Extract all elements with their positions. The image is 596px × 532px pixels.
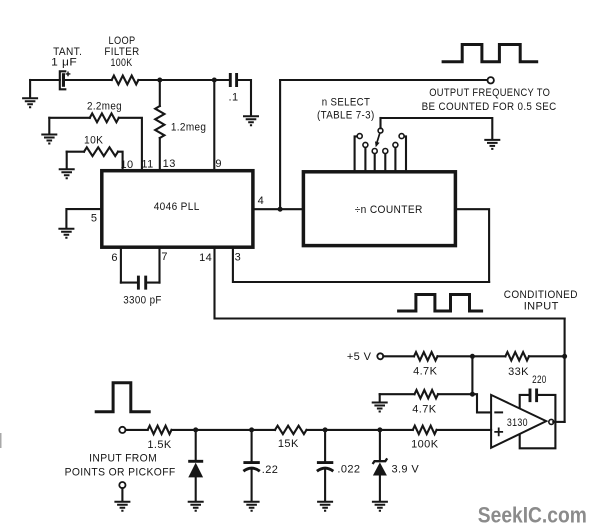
terminal (output frequency, open circle)	[488, 77, 494, 83]
resistor R7 33K	[505, 352, 529, 360]
label 3300 pF	[123, 295, 162, 307]
capacitor C6 .022	[317, 430, 333, 501]
svg-text:n SELECT: n SELECT	[322, 97, 371, 109]
svg-text:3: 3	[235, 252, 242, 264]
pin label 13	[163, 158, 176, 170]
svg-text:13: 13	[163, 158, 176, 170]
wire (counter output to pin 3 feedback)	[455, 209, 489, 282]
waveform (output square wave)	[443, 45, 537, 62]
node junction (C6)	[323, 427, 328, 432]
op-amp U3 3130	[491, 395, 546, 448]
label .22	[262, 464, 279, 476]
svg-text:3.9 V: 3.9 V	[391, 463, 419, 475]
svg-text:1.5K: 1.5K	[147, 439, 171, 451]
svg-text:100K: 100K	[111, 57, 133, 69]
resistor R4 10K	[67, 147, 123, 170]
label 10K	[84, 135, 104, 147]
svg-text:3300 pF: 3300 pF	[123, 295, 162, 307]
pin 4 wire and label	[253, 195, 304, 209]
pin label 9	[215, 158, 222, 170]
resistor R8 1.5K	[148, 426, 172, 434]
svg-text:INPUT FROM: INPUT FROM	[89, 452, 157, 464]
capacitor C1 TANT. 1uF (polarized)	[60, 71, 71, 89]
svg-text:INPUT: INPUT	[524, 301, 559, 313]
node junction (divider top)	[470, 354, 475, 359]
label 33K	[508, 366, 529, 378]
zener diode D2 3.9 V	[373, 430, 388, 501]
label CONDITIONED INPUT	[504, 289, 578, 313]
wire (ground to R6)	[380, 393, 415, 395]
svg-text:4.7K: 4.7K	[412, 403, 436, 415]
ground (R4)	[59, 152, 75, 179]
terminal (op-amp output circle)	[549, 419, 554, 424]
svg-text:4: 4	[258, 195, 265, 207]
label 2.2meg	[87, 101, 122, 113]
svg-text:6: 6	[111, 252, 118, 264]
ground (pin 5)	[58, 229, 74, 238]
wire (feedback vertical to pin 14 line)	[564, 319, 566, 422]
wire (+5V to R5)	[383, 355, 414, 357]
wire (node to op-amp minus input)	[472, 394, 491, 412]
svg-text:CONDITIONED: CONDITIONED	[504, 289, 578, 301]
wire (switch common to ground)	[381, 118, 493, 139]
watermark SeekIC.com	[478, 502, 587, 527]
svg-text:.022: .022	[337, 464, 360, 476]
label +5 V	[347, 351, 372, 363]
svg-text:1.2meg: 1.2meg	[171, 122, 207, 134]
label n SELECT (TABLE 7-3)	[317, 97, 375, 122]
label 1.2meg	[171, 122, 207, 134]
scan artifact left edge	[0, 433, 2, 448]
ground (C6)	[317, 502, 333, 511]
wire (R5 to node, node to R7)	[438, 355, 565, 357]
resistor R9 15K	[275, 426, 307, 434]
ground (switch common)	[484, 140, 500, 149]
ground (C5)	[244, 502, 260, 511]
svg-text:11: 11	[141, 158, 153, 170]
svg-text:1 μF: 1 μF	[51, 57, 77, 69]
capacitor C4 220	[530, 389, 537, 403]
svg-text:4.7K: 4.7K	[413, 366, 437, 378]
svg-text:9: 9	[215, 158, 222, 170]
svg-text:BE COUNTED FOR 0.5 SEC: BE COUNTED FOR 0.5 SEC	[422, 101, 557, 113]
label 3.9 V	[391, 463, 419, 475]
wire (R8 to R9)	[172, 429, 276, 431]
label 220	[532, 374, 547, 386]
ground (input return)	[114, 502, 130, 511]
label 15K	[278, 438, 299, 450]
svg-text:POINTS OR PICKOFF: POINTS OR PICKOFF	[65, 467, 176, 479]
switch contact stem 4	[383, 149, 388, 172]
svg-text:14: 14	[199, 252, 212, 264]
resistor R1 100K LOOP FILTER	[112, 76, 139, 85]
ground (R3)	[41, 118, 57, 144]
IC U2 divide-by-n counter box	[303, 172, 455, 246]
svg-text:2.2meg: 2.2meg	[87, 101, 122, 113]
resistor R2 1.2meg (vertical)	[155, 80, 164, 170]
capacitor C5 .22	[243, 430, 259, 501]
switch S1 common pole and arm	[375, 118, 383, 147]
IC U1 4046 PLL box	[102, 171, 253, 248]
label TANT. 1uF	[51, 46, 82, 69]
pin 3 stem, label, wire to counter output	[233, 247, 489, 282]
switch contact stem 5	[393, 142, 398, 171]
node junction (33K right / feedback)	[562, 354, 567, 359]
label OUTPUT FREQUENCY TO BE COUNTED FOR 0.5 SEC	[422, 87, 557, 113]
ground (R6 left)	[372, 394, 388, 411]
label .022	[337, 464, 360, 476]
pin 6 stem and label	[111, 247, 120, 282]
svg-text:.22: .22	[262, 464, 279, 476]
svg-text:+5 V: +5 V	[347, 351, 372, 363]
node junction (C5)	[249, 427, 254, 432]
wire (C2 to ground)	[237, 80, 251, 116]
svg-text:7: 7	[161, 251, 168, 263]
wire (pin4 node up to output line)	[279, 80, 281, 209]
svg-text:(TABLE 7-3): (TABLE 7-3)	[317, 110, 375, 122]
svg-text:220: 220	[532, 374, 547, 386]
node junction (divider to minus input)	[470, 392, 475, 397]
pin label 11	[141, 158, 153, 170]
label 4.7K (upper)	[413, 366, 437, 378]
wire feedback loop (220 cap network)	[520, 395, 556, 448]
switch contact stem 2	[363, 142, 368, 171]
switch contact stem 1	[355, 134, 363, 171]
wire (R6 to node)	[438, 393, 472, 395]
wire (C1 to R1)	[65, 79, 111, 81]
resistor R10 100K	[413, 426, 437, 434]
waveform (conditioned input square wave)	[399, 295, 482, 312]
label .1	[229, 92, 239, 104]
label 4.7K (lower)	[412, 403, 436, 415]
terminal (input open circle)	[119, 427, 125, 433]
ground (C2)	[243, 116, 259, 125]
label LOOP FILTER 100K	[104, 35, 139, 69]
switch contact stem 3	[372, 149, 377, 172]
label 1.5K	[147, 439, 171, 451]
svg-text:OUTPUT FREQUENCY TO: OUTPUT FREQUENCY TO	[429, 87, 550, 99]
node junction (R2 top)	[157, 78, 162, 83]
svg-text:÷n COUNTER: ÷n COUNTER	[355, 204, 423, 216]
wire (R9 to R10)	[307, 429, 413, 431]
svg-text:4046 PLL: 4046 PLL	[154, 201, 200, 213]
resistor R3 2.2meg	[49, 113, 142, 170]
waveform (input pulse)	[96, 383, 149, 412]
terminal (+5V open circle)	[377, 353, 383, 359]
terminal (input return, open circle)	[119, 482, 125, 501]
svg-text:100K: 100K	[411, 439, 439, 451]
wire (output to feedback vertical)	[553, 421, 564, 423]
switch contact stem 6	[399, 134, 406, 171]
svg-text:33K: 33K	[508, 366, 529, 378]
pin 14 stem, label, wire to comparator output	[199, 247, 565, 318]
pin label 10	[120, 159, 133, 171]
resistor R5 4.7K (upper)	[414, 352, 438, 360]
wire (input to R8)	[126, 429, 148, 431]
node junction pin4/output	[278, 207, 283, 212]
wire (left rail to C1)	[30, 79, 60, 81]
ground (D1)	[188, 502, 204, 511]
wire (divider node vertical)	[471, 356, 473, 394]
wire (output frequency line)	[280, 79, 487, 81]
label 100K	[411, 439, 439, 451]
pin 5 wire and label	[66, 209, 101, 228]
capacitor C2 .1	[230, 73, 236, 87]
node junction (zener D2)	[377, 427, 382, 432]
svg-text:SeekIC.com: SeekIC.com	[478, 502, 587, 527]
label INPUT FROM POINTS OR PICKOFF	[65, 452, 176, 478]
svg-text:10K: 10K	[84, 135, 104, 147]
node junction (pin 9 tap)	[212, 78, 217, 83]
resistor R6 4.7K (lower)	[415, 390, 439, 398]
diode D1	[188, 430, 203, 501]
svg-text:15K: 15K	[278, 438, 299, 450]
capacitor C3 3300 pF	[121, 276, 160, 290]
wire (R1 to C2)	[138, 79, 230, 81]
svg-text:3130: 3130	[507, 417, 528, 429]
wire pin 9 stem	[213, 80, 215, 170]
svg-text:.1: .1	[229, 92, 239, 104]
svg-text:5: 5	[91, 213, 98, 225]
pin 7 stem and label	[160, 247, 168, 282]
ground (top-left, C1 negative)	[22, 80, 38, 107]
node junction (diode D1)	[193, 427, 198, 432]
wire (R10 to op-amp plus input)	[437, 429, 492, 431]
ground (D2)	[372, 502, 388, 511]
